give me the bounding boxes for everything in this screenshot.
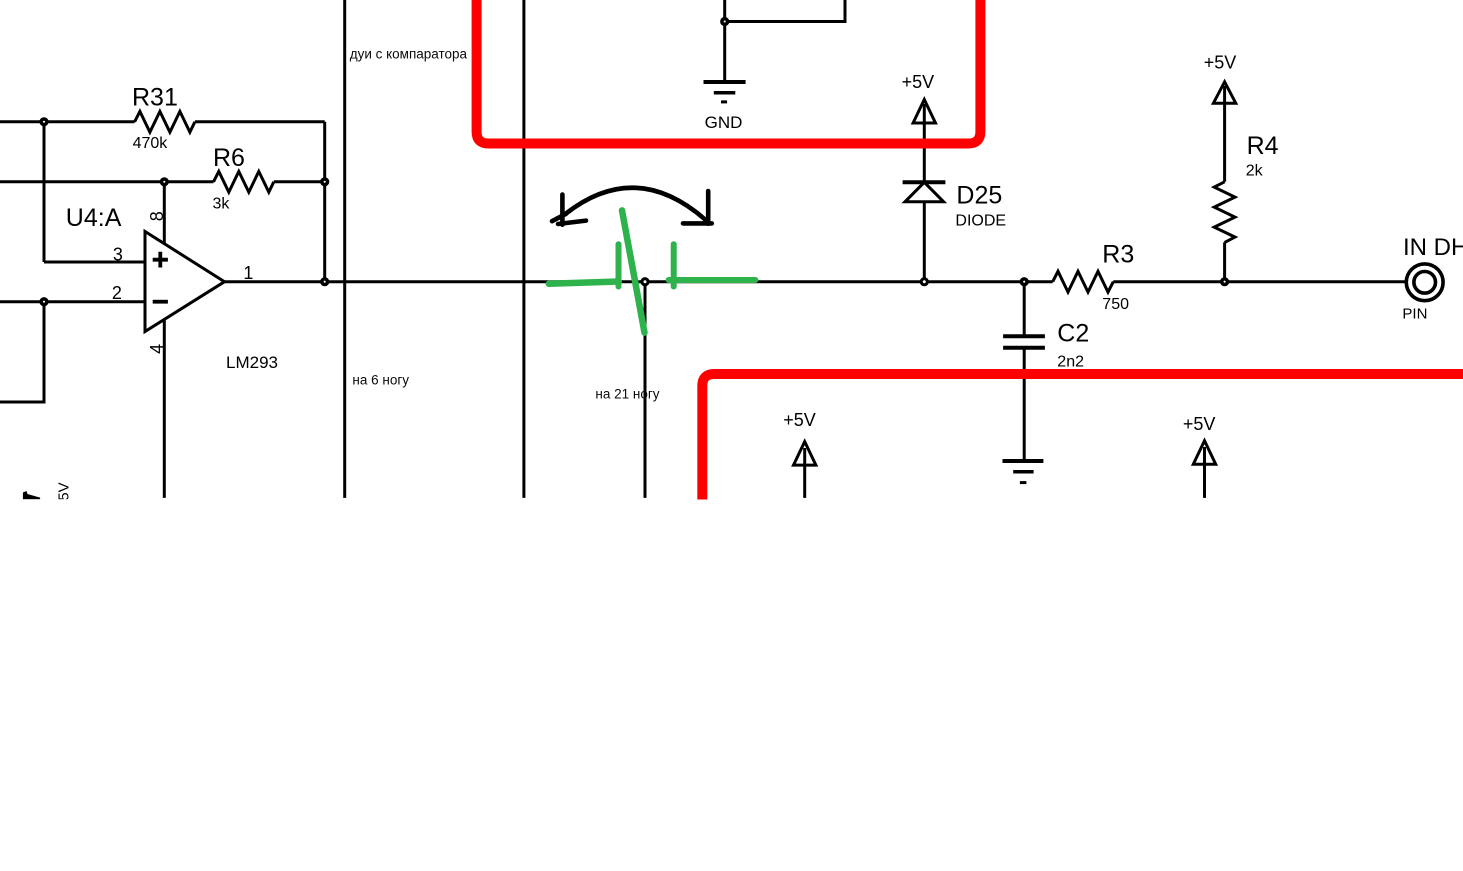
diode D25 — [903, 182, 946, 281]
svg-text:+5V: +5V — [1183, 414, 1216, 434]
svg-text:R4: R4 — [1247, 132, 1279, 160]
hand-drawn rotate arrow arc — [552, 188, 712, 225]
svg-text:750: 750 — [1102, 296, 1129, 313]
wire pin 4 — [163, 316, 166, 498]
wire — [0, 120, 135, 123]
ground GND top — [704, 82, 746, 102]
svg-text:2k: 2k — [1246, 163, 1264, 180]
svg-text:470k: 470k — [133, 135, 169, 152]
wire — [43, 122, 46, 262]
svg-text:+5V: +5V — [783, 410, 816, 430]
wire vertical long 2 — [522, 0, 525, 498]
svg-text:3k: 3k — [213, 196, 231, 213]
terminal PIN IN DHT — [1406, 264, 1443, 301]
svg-text:+5V: +5V — [902, 72, 935, 92]
resistor R6 — [214, 171, 274, 192]
svg-text:PIN: PIN — [1402, 306, 1427, 323]
power +5V above D25 — [913, 100, 935, 183]
svg-text:дуи с компаратора: дуи с компаратора — [350, 47, 468, 62]
svg-text:3: 3 — [113, 244, 123, 264]
op-amp U4:A — [145, 232, 225, 332]
red highlight box top — [477, 0, 981, 144]
svg-text:R6: R6 — [213, 144, 245, 172]
wire top gnd net — [725, 0, 845, 22]
wire — [323, 122, 326, 282]
svg-text:GND: GND — [705, 113, 743, 132]
wire — [1113, 280, 1406, 283]
wire vertical long 1 — [343, 0, 346, 498]
resistor R4 — [1214, 86, 1235, 282]
resistor R31 — [135, 111, 195, 132]
power +5V lower right — [1193, 441, 1215, 498]
partial bold glyph bottom left — [23, 491, 40, 501]
svg-text:на 21 ногу: на 21 ногу — [595, 387, 659, 402]
svg-text:1: 1 — [243, 263, 253, 283]
svg-text:R31: R31 — [132, 84, 178, 112]
svg-text:DIODE: DIODE — [955, 212, 1006, 229]
arrowhead right — [683, 191, 712, 224]
arrowhead left — [552, 195, 586, 225]
svg-text:IN DHT: IN DHT — [1403, 234, 1463, 261]
svg-text:U4:A: U4:A — [66, 204, 122, 232]
ground below C2 — [1003, 461, 1044, 483]
op-amp plus input — [153, 252, 168, 268]
svg-text:8: 8 — [147, 211, 167, 221]
node junction dots — [39, 17, 1229, 306]
svg-text:+5V: +5V — [1204, 52, 1237, 72]
wire — [274, 180, 325, 183]
wire — [44, 261, 145, 264]
capacitor C2 — [1003, 282, 1045, 461]
wire — [0, 180, 214, 183]
wire — [0, 302, 44, 402]
wire pin 8 — [163, 182, 166, 248]
green hand-drawn switch — [549, 210, 756, 332]
wire — [723, 0, 726, 82]
wire — [195, 120, 325, 123]
resistor R3 — [1053, 271, 1114, 292]
svg-text:D25: D25 — [956, 181, 1002, 209]
svg-text:2n2: 2n2 — [1057, 353, 1084, 370]
wire — [0, 300, 145, 303]
wire to pin 21 — [644, 282, 647, 498]
svg-text:LM293: LM293 — [226, 353, 278, 372]
power +5V lower left — [794, 442, 816, 498]
svg-text:R3: R3 — [1102, 241, 1134, 269]
svg-text:C2: C2 — [1057, 320, 1089, 348]
svg-text:на 6 ногу: на 6 ногу — [352, 373, 409, 388]
crop cover — [0, 499, 1463, 871]
svg-text:2: 2 — [112, 283, 122, 303]
power +5V above R4 — [1213, 82, 1235, 103]
svg-text:4: 4 — [147, 344, 167, 354]
wire main output net — [224, 280, 1053, 283]
red highlight box bottom — [702, 374, 1463, 500]
op-amp minus input — [153, 300, 168, 304]
